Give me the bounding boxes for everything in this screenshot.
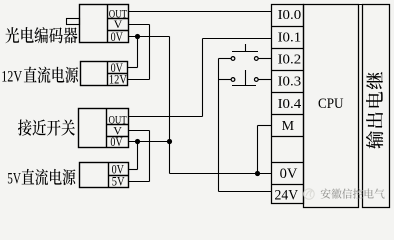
pushbutton S1 actuator bar: [232, 51, 258, 53]
svg-text:5V: 5V: [112, 173, 125, 188]
pushbutton S1 right contact: [254, 57, 258, 61]
relay output column box (继电输出): [359, 5, 390, 208]
watermark logo: [304, 189, 314, 199]
junction: 0V / M node: [255, 171, 260, 176]
pushbutton S1 right wire to I0.2: [258, 58, 272, 60]
wire: encoder 0V horizontal: [129, 36, 170, 38]
svg-text:0V: 0V: [110, 134, 123, 149]
svg-text:I0.3: I0.3: [278, 75, 302, 90]
junction: encoder 0V / 12V-0V: [135, 34, 140, 39]
CPU input terminal column: [272, 5, 304, 204]
wire: encoder 0V down to common: [169, 37, 171, 142]
wire: proximity V down to 5V supply: [149, 131, 151, 182]
vertical label 继: [366, 72, 383, 89]
vertical label 输: [366, 131, 383, 149]
svg-text:I0.4: I0.4: [278, 97, 302, 112]
12V DC power supply box (12V直流电源): [81, 62, 128, 86]
wire: switch common branch vertical: [218, 59, 220, 192]
pushbutton S1 left wire: [219, 58, 232, 60]
photoelectric encoder box (光电编码器): [80, 5, 129, 43]
wire: encoder V down to 12V supply: [149, 25, 151, 80]
5V DC power supply box (5V直流电源): [80, 163, 129, 188]
svg-text:I0.1: I0.1: [278, 31, 302, 46]
vertical label 出: [366, 112, 383, 128]
label 光电编码器: [5, 27, 77, 43]
svg-text:5V: 5V: [7, 171, 21, 188]
wire: 12V supply 12V terminal segment: [128, 79, 150, 81]
wire: 5V supply 0V terminal segment: [129, 169, 138, 171]
pushbutton S2 right wire to I0.3: [258, 79, 272, 81]
junction: 0V common node: [167, 139, 172, 144]
svg-text:I0.2: I0.2: [278, 53, 302, 68]
wire: M terminal segment: [258, 125, 272, 127]
svg-text:CPU: CPU: [318, 96, 344, 112]
CPU body box: [304, 5, 359, 208]
svg-text:0V: 0V: [111, 29, 124, 44]
wire: 0V common right to CPU 0V: [170, 173, 272, 175]
wire: proximity V segment: [129, 130, 150, 132]
pushbutton S2 actuator stem: [245, 70, 247, 86]
wire: proximity 0V horizontal common: [129, 141, 170, 143]
wire: proximity OUT segment: [129, 116, 203, 118]
wire: 5V supply 5V terminal segment: [129, 181, 150, 183]
pushbutton S2 left contact: [231, 78, 235, 82]
vertical label 电: [366, 92, 383, 108]
wire: junction down to 5V supply 0V: [137, 142, 139, 170]
wire: proximity OUT up: [202, 39, 204, 117]
pushbutton S2 left wire: [219, 79, 232, 81]
wire: branch bottom to 24V: [219, 191, 272, 193]
wire: up to M terminal: [257, 126, 259, 174]
pushbutton S1 actuator stem: [245, 44, 247, 52]
watermark text 安徽信控电气: [321, 188, 385, 198]
wire: to I0.1: [203, 38, 272, 40]
wire: encoder OUT to I0.0: [129, 11, 272, 13]
svg-text:12V: 12V: [1, 69, 22, 86]
wire: 12V supply 0V terminal segment: [128, 67, 138, 69]
wire: encoder V right segment: [129, 24, 150, 26]
label 5V直流电源: [7, 169, 75, 188]
wire: junction down to 12V supply 0V: [137, 37, 139, 68]
svg-text:12V: 12V: [109, 72, 127, 87]
proximity switch box (接近开关): [79, 109, 129, 148]
label 接近开关: [18, 119, 75, 135]
pushbutton S2 right contact: [254, 78, 258, 82]
svg-text:0V: 0V: [280, 166, 298, 182]
encoder shaft stub: [67, 19, 80, 25]
svg-text:M: M: [282, 119, 295, 134]
svg-text:24V: 24V: [275, 187, 299, 203]
label 12V直流电源: [1, 67, 78, 86]
pushbutton S2 actuator bar: [232, 85, 256, 87]
wire: 0V common down: [169, 142, 171, 174]
svg-text:I0.0: I0.0: [278, 8, 302, 23]
junction: proximity 0V / 5V-0V: [135, 139, 140, 144]
pushbutton S1 left contact: [231, 57, 235, 61]
